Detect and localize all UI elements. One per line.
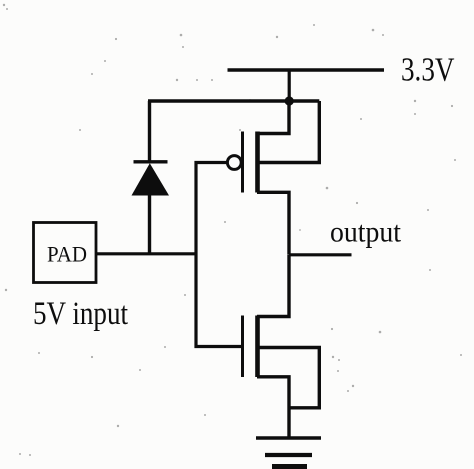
label output <box>330 217 402 249</box>
wire output tap <box>289 253 352 256</box>
pmos M1 gate bar <box>241 132 244 193</box>
nmos M2 source lead <box>257 377 289 437</box>
pmos M1 channel bar <box>255 132 260 193</box>
label PAD <box>47 242 87 267</box>
wire 3.3V bus horizontal <box>148 99 319 102</box>
nmos M2 bulk lead <box>258 348 319 408</box>
pmos M1 source lead <box>257 101 289 134</box>
wire rail to junction <box>288 70 291 101</box>
component PAD box <box>34 223 97 283</box>
nmos M2 drain lead <box>257 255 289 317</box>
label 5V input <box>33 296 128 332</box>
wire input from PAD <box>96 252 196 255</box>
wire bus down to PMOS bulk <box>258 101 319 163</box>
svg-text:3.3V: 3.3V <box>401 52 455 89</box>
wire gate input vertical <box>196 163 243 347</box>
node junction dot <box>285 96 294 105</box>
diode D1 anode wire <box>148 195 151 254</box>
nmos M2 gate bar <box>241 316 244 378</box>
svg-text:PAD: PAD <box>47 242 87 267</box>
pmos M1 gate bubble <box>227 156 241 170</box>
diode D1 cathode bar <box>134 160 168 163</box>
label 3.3V <box>401 52 455 89</box>
diode D1 triangle <box>132 163 170 195</box>
nmos M2 channel bar <box>255 316 260 378</box>
ground <box>256 438 321 467</box>
svg-text:5V input: 5V input <box>33 296 128 332</box>
wire 3.3V rail <box>228 68 385 71</box>
svg-text:output: output <box>330 217 402 249</box>
diode D1 cathode wire <box>148 101 151 162</box>
pmos M1 drain lead <box>257 192 289 254</box>
